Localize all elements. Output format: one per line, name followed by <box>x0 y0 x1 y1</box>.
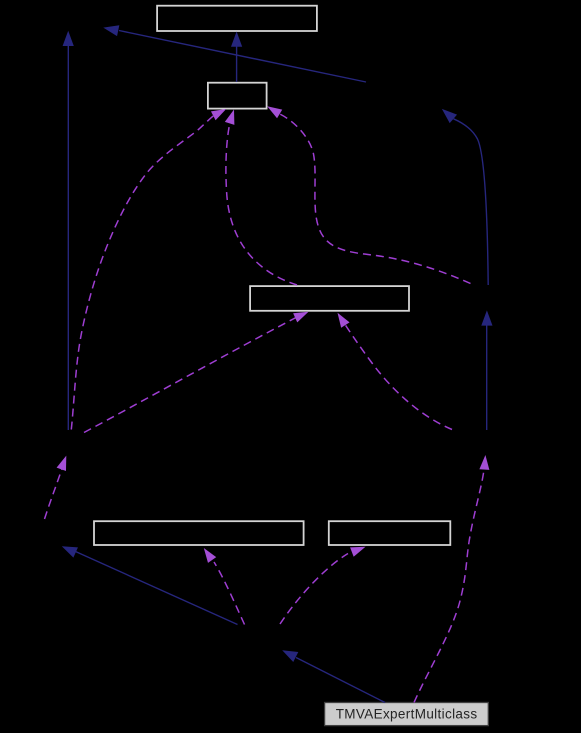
arrowhead D1 <box>211 105 229 121</box>
wire D5: A4R to B3 curve <box>344 323 452 430</box>
arrowhead E5 <box>481 310 492 325</box>
wire D7: A6 to B5L <box>214 562 245 625</box>
wire E4: A3 to A2 curve <box>454 119 489 285</box>
dashed collaboration edges (orchid) <box>45 114 485 703</box>
node TMVAExpertMulticlass <box>325 703 489 726</box>
arrowhead E3 <box>231 32 242 47</box>
arrowhead E4 <box>438 105 457 123</box>
arrowhead D9 <box>479 455 490 470</box>
wire E5: A4R to A3 vertical <box>486 324 488 430</box>
wire D2: B3 to B2 left-bulge curve <box>226 119 297 285</box>
solid inheritance edges (navy) <box>68 31 488 703</box>
wire E1: A4L to A1 vertical <box>67 38 69 430</box>
arrowhead D5 <box>333 310 349 328</box>
svg-text:TMVAExpertMulticlass: TMVAExpertMulticlass <box>336 707 478 722</box>
arrowhead E7 <box>280 645 299 662</box>
wire E6: A6 to A5L diagonal <box>76 552 238 625</box>
navy arrowheads <box>60 22 493 662</box>
arrowhead D3 <box>265 102 283 118</box>
arrowhead D7 <box>200 545 217 563</box>
arrowhead D6 <box>57 454 71 471</box>
node box B3 (middle row, empty) <box>250 286 409 311</box>
arrowhead D2 <box>225 108 239 125</box>
wire E3: B2 to B1 vertical <box>236 43 238 82</box>
wire D4: A4L to B3 diagonal <box>84 317 297 433</box>
arrowhead E2 <box>102 22 119 36</box>
wire D8: A6 to B5R <box>280 554 348 625</box>
wire E7: B7 to A6 diagonal <box>296 658 385 703</box>
node box B1 (top, empty) <box>157 6 317 31</box>
wire D6: A5L to A4L <box>45 465 64 519</box>
node box B5R (fifth row right, empty) <box>329 521 451 545</box>
arrowhead D8 <box>350 542 367 557</box>
wire D1: A4L to B2 long left curve <box>71 116 213 430</box>
arrowhead E6 <box>60 541 78 557</box>
wire D3: A3 to B2 s-curve <box>280 114 471 284</box>
arrowhead D4 <box>293 307 310 322</box>
wire D9: B7 to A4R right curve <box>414 466 485 703</box>
orchid arrowheads <box>57 102 491 563</box>
node box B5L (fifth row left, empty) <box>94 521 304 545</box>
arrowhead E1 <box>63 31 74 46</box>
wire E2: A2 to A1 diagonal <box>119 31 366 83</box>
node box B2 (second row, empty) <box>208 83 267 109</box>
